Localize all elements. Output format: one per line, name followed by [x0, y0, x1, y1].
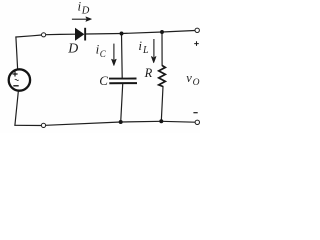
wire resistor branch lower — [161, 87, 163, 122]
node 4 (bottom resistor junction) — [159, 119, 163, 123]
plus sign of output vO — [194, 41, 199, 46]
wire node 2 to top-right terminal — [162, 31, 195, 33]
svg-text:i: i — [138, 38, 142, 53]
label iC — [96, 41, 107, 59]
diode D — [75, 28, 86, 41]
current arrow iD — [72, 17, 92, 21]
input terminal bottom (open circle) — [41, 123, 45, 127]
wire capacitor branch upper — [121, 34, 124, 78]
wire bottom node 3 to node 4 — [121, 120, 162, 123]
output terminal bottom-right (open circle) — [195, 120, 199, 124]
svg-text:C: C — [100, 49, 107, 59]
resistor R — [159, 66, 166, 87]
output terminal top-right (open circle) — [195, 28, 199, 32]
wire top-left segment — [16, 35, 42, 37]
plus polarity mark of source — [13, 72, 18, 77]
input terminal top (open circle) — [42, 33, 46, 37]
svg-text:L: L — [142, 45, 149, 56]
svg-text:R: R — [144, 66, 153, 80]
wire bottom-left segment — [15, 124, 41, 126]
wire resistor branch upper — [161, 32, 163, 66]
label iL — [138, 38, 149, 56]
wire top between input terminal and diode anode — [46, 33, 76, 36]
svg-text:C: C — [99, 73, 108, 88]
svg-text:O: O — [193, 78, 200, 88]
wire bottom between terminal and capacitor node — [46, 122, 121, 125]
svg-text:v: v — [186, 71, 192, 85]
wire bottom node 4 to bottom-right terminal — [161, 120, 195, 123]
wire left vertical above source — [16, 37, 18, 69]
minus sign of output vO — [193, 112, 197, 114]
node 3 (bottom capacitor junction) — [119, 120, 123, 124]
node 2 (top resistor junction) — [160, 30, 164, 34]
wire capacitor branch lower — [121, 84, 123, 122]
wire diode cathode to node 1 — [86, 33, 122, 36]
capacitor C — [109, 79, 137, 84]
label iD — [78, 0, 90, 16]
minus polarity mark of source — [13, 85, 18, 87]
node 1 (top capacitor junction) — [120, 32, 124, 36]
svg-text:D: D — [67, 40, 78, 55]
svg-text:D: D — [81, 5, 90, 16]
voltage source VS — [9, 69, 30, 90]
wire node 1 to node 2 — [122, 32, 163, 34]
sine squiggle of source — [15, 79, 19, 80]
current arrow iL — [151, 39, 156, 63]
current arrow iC — [112, 44, 117, 66]
wire left vertical below source — [15, 92, 18, 126]
label vO — [186, 71, 199, 88]
